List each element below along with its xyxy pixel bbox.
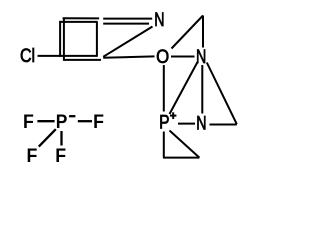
wire P2-F4 vertical bond (60, 131, 62, 146)
atom F2 (93, 110, 104, 132)
atom F1 (23, 110, 34, 132)
wire N2 to P+ diagonal (170, 62, 198, 114)
svg-text:O: O (156, 46, 169, 67)
svg-text:F: F (93, 110, 104, 132)
wire C=N double bond upper line (103, 18, 152, 20)
wire P+ triangle hypotenuse (170, 131, 200, 158)
wire P2-F2 bond (78, 120, 92, 122)
svg-text:Cl: Cl (20, 45, 35, 67)
wire apex to N2 vertical (202, 16, 204, 48)
svg-text:F: F (23, 110, 34, 132)
atom N3 (196, 112, 206, 134)
wire O to P+ vertical (163, 65, 165, 112)
wire ring right edge (96, 21, 98, 56)
charge plus sign horizontal (170, 115, 176, 117)
svg-text:F: F (55, 144, 66, 166)
atom N2 (196, 46, 206, 68)
wire O to apex diagonal (172, 16, 204, 49)
wire ring left inner edge (63, 17, 65, 60)
atom F4 (55, 144, 66, 166)
wire ring left outer edge (59, 21, 61, 57)
charge minus sign (69, 115, 75, 117)
wire ring top edge (60, 21, 98, 23)
atom F3 (27, 144, 38, 166)
wire P+ triangle left vertical (163, 132, 165, 158)
wire N2 to N3 vertical (201, 65, 203, 114)
wire P+ triangle bottom edge (163, 157, 199, 159)
svg-text:P: P (159, 111, 169, 133)
wire C=N double bond lower line (103, 23, 149, 25)
svg-text:F: F (27, 144, 38, 166)
wire ring to O bond (103, 56, 154, 57)
atom Cl (20, 45, 35, 67)
wire N2 to right vertex diagonal (207, 63, 237, 125)
wire ring bottom outer line (63, 59, 101, 61)
atom O (156, 46, 169, 67)
wire O-N2 bond (171, 56, 195, 58)
wire F1-P2 bond (37, 120, 54, 122)
atom P2 (56, 110, 68, 132)
wire ring top outer line (63, 17, 100, 19)
svg-text:N: N (154, 9, 164, 31)
wire P+ to N3 bond (178, 123, 195, 125)
atom N1 (154, 9, 164, 31)
svg-text:N: N (196, 46, 206, 68)
atom P+ (159, 111, 169, 133)
svg-text:N: N (196, 112, 206, 134)
wire N3 to right vertex bond (210, 124, 237, 126)
wire N1 to ring diagonal (103, 27, 152, 57)
wire P2-F3 diagonal bond (39, 129, 56, 146)
svg-text:P: P (56, 110, 68, 132)
charge plus sign vertical (172, 112, 174, 119)
wire Cl-ring bond and ring bottom edge (38, 55, 98, 57)
